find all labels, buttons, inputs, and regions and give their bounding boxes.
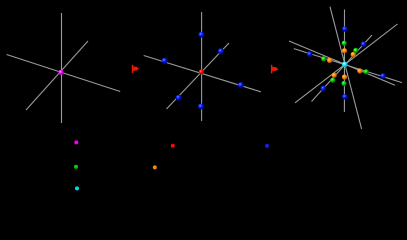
node central red atom (199, 69, 204, 74)
node blue ligand top (198, 32, 204, 38)
node blue shell upper-right (361, 41, 367, 47)
node green shell right (364, 69, 369, 74)
node blue ligand bottom (198, 104, 204, 110)
node blue shell lower-left (321, 86, 327, 92)
node blue ligand upper-right (218, 48, 224, 54)
wire long diagonal P3 (295, 24, 398, 103)
node blue ligand left (162, 58, 168, 64)
wire tilted vertical axis P3 (330, 7, 362, 129)
wire vertical axis P2 (201, 12, 203, 121)
node central cyan atom (342, 62, 348, 68)
panel 2: octahedron (144, 12, 261, 121)
legend orange dot (153, 165, 157, 169)
node orange shell left (327, 58, 332, 63)
node green shell bottom (341, 81, 346, 86)
panel 3: multi-shell cluster (289, 7, 402, 129)
node orange shell top (342, 48, 347, 53)
arrow 2 (maps-to) (271, 65, 279, 74)
legend red dot (171, 144, 175, 148)
node blue ligand lower-left (176, 95, 182, 101)
node orange shell upper-right (351, 52, 356, 57)
node green shell left (321, 56, 326, 61)
panel 1: axes of isolated atom (7, 13, 121, 123)
wire shallow axis P3 (294, 49, 402, 83)
node orange shell right (357, 68, 362, 73)
node blue shell right (380, 73, 386, 79)
node blue shell bottom (342, 94, 348, 100)
node orange shell bottom (342, 74, 347, 79)
wire shallow axis P2 (144, 56, 261, 92)
arrow 1 (maps-to) (132, 65, 139, 73)
node green shell top (342, 41, 347, 46)
wire steep axis P2 (167, 43, 230, 109)
node blue shell top (342, 26, 348, 32)
wire steep axis P1 (26, 41, 88, 110)
wire vertical axis P3 (343, 10, 345, 113)
node central magenta atom (58, 70, 63, 75)
legend cyan dot (75, 186, 79, 190)
wire vertical axis P1 (61, 13, 63, 123)
wire shallow axis P1 (7, 55, 121, 92)
wire steep axis P3 (312, 35, 373, 102)
wire second shallow axis P3 (289, 41, 395, 85)
legend magenta dot (74, 140, 78, 144)
legend blue dot (265, 144, 269, 148)
node green shell upper-right (353, 48, 358, 53)
node blue shell left (307, 51, 313, 57)
node orange shell lower-left (332, 73, 337, 78)
node blue ligand right (238, 82, 244, 88)
legend green dot (74, 165, 78, 169)
node green shell lower-left (330, 78, 335, 83)
